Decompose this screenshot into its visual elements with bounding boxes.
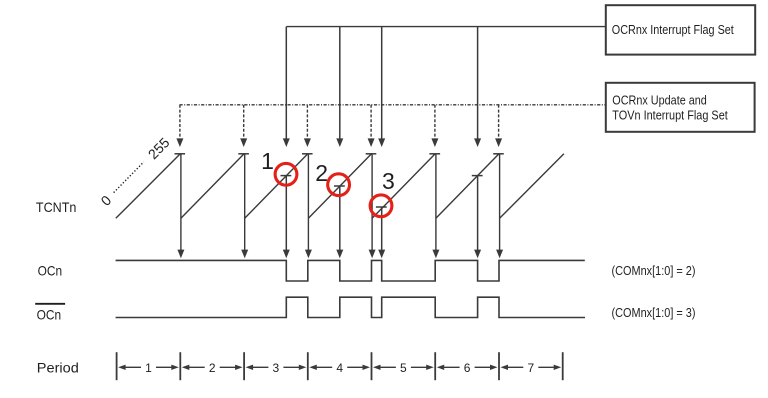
svg-text:TOVn Interrupt Flag Set: TOVn Interrupt Flag Set <box>612 108 728 123</box>
svg-text:TCNTn: TCNTn <box>36 199 77 215</box>
svg-text:6: 6 <box>464 361 471 375</box>
svg-text:5: 5 <box>400 361 407 375</box>
svg-text:OCRnx Update and: OCRnx Update and <box>612 93 707 108</box>
svg-text:3: 3 <box>382 168 395 194</box>
svg-text:2: 2 <box>209 361 216 375</box>
svg-text:3: 3 <box>273 361 280 375</box>
svg-text:OCn: OCn <box>37 307 62 323</box>
svg-text:OCn: OCn <box>38 263 63 279</box>
svg-text:1: 1 <box>145 361 152 375</box>
svg-text:(COMnx[1:0] = 2): (COMnx[1:0] = 2) <box>612 263 696 278</box>
svg-text:4: 4 <box>336 361 343 375</box>
svg-text:7: 7 <box>527 361 534 375</box>
svg-text:(COMnx[1:0] = 3): (COMnx[1:0] = 3) <box>612 305 696 320</box>
svg-text:1: 1 <box>261 148 274 174</box>
svg-text:2: 2 <box>315 160 328 186</box>
svg-text:Period: Period <box>37 359 79 375</box>
svg-text:OCRnx Interrupt Flag Set: OCRnx Interrupt Flag Set <box>612 22 734 37</box>
